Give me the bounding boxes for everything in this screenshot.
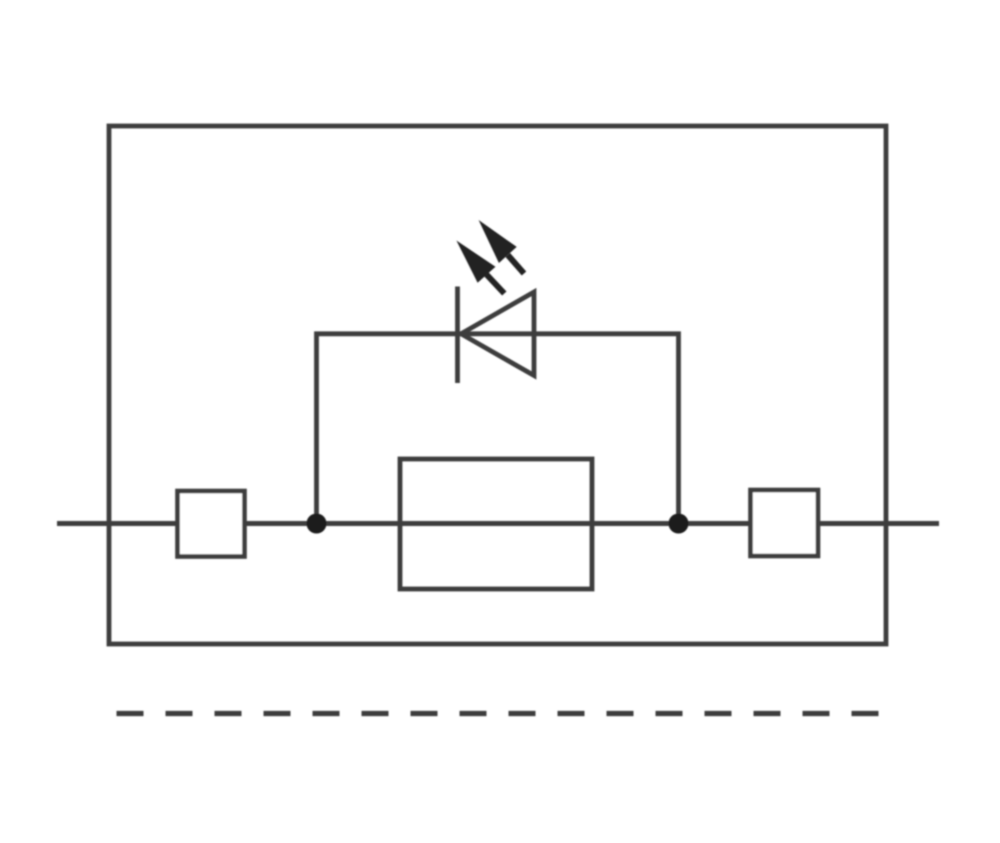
wire: left clamp through fuse to right clamp <box>243 521 752 526</box>
LED light arrow 2 (upper right) <box>479 220 524 274</box>
node: right junction <box>669 514 689 534</box>
wire: right external lead <box>817 521 939 526</box>
terminal clamp right <box>751 490 819 556</box>
LED D1 (cathode bar and triangle) <box>458 287 535 384</box>
dashed mounting-rail line <box>117 711 879 716</box>
enclosure outline <box>109 126 886 644</box>
terminal clamp left <box>178 491 245 557</box>
wire: LED branch (parallel to fuse) <box>317 334 679 524</box>
wire: left external lead <box>57 521 179 526</box>
node: left junction <box>307 514 327 534</box>
LED light arrow 1 (lower left) <box>456 241 504 294</box>
fuse F1 <box>400 459 592 589</box>
